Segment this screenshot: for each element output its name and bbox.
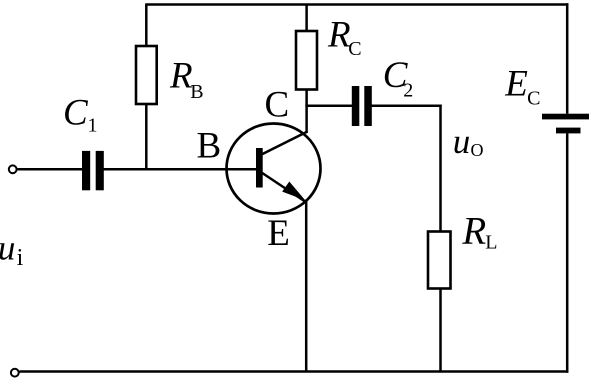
svg-text:C: C: [348, 38, 361, 60]
transistor emitter arrowhead: [282, 182, 305, 201]
wire bottom rail: [20, 370, 569, 373]
svg-text:E: E: [267, 213, 290, 254]
wire RB lower leg: [145, 104, 148, 170]
battery EC long plate: [542, 114, 589, 120]
capacitor C2 right plate: [364, 86, 372, 126]
svg-text:C: C: [265, 84, 290, 125]
resistor R_B: [136, 46, 157, 104]
svg-text:C: C: [527, 88, 540, 110]
transistor Q1 body: [227, 124, 321, 214]
svg-text:B: B: [190, 81, 203, 103]
wire input to C1: [18, 168, 84, 171]
wire RC upper leg: [305, 5, 308, 32]
output terminal: [11, 369, 19, 377]
wire RL lower leg: [439, 289, 442, 372]
resistor R_C: [296, 31, 317, 90]
transistor base bar: [256, 148, 263, 188]
svg-text:L: L: [485, 232, 497, 254]
capacitor C2 left plate: [352, 86, 360, 126]
svg-text:E: E: [504, 63, 528, 104]
wire right rail lower: [566, 133, 569, 372]
svg-text:u: u: [453, 122, 471, 161]
wire C2 to output node: [371, 105, 442, 108]
wire top rail: [145, 3, 568, 6]
input terminal: [9, 165, 17, 173]
svg-text:B: B: [197, 126, 222, 167]
wire right rail upper: [566, 3, 569, 113]
wire C2 node to plate: [305, 105, 352, 108]
svg-text:R: R: [327, 15, 351, 56]
transistor emitter line: [262, 173, 307, 203]
transistor collector line: [262, 132, 308, 155]
wire C1 to base: [103, 168, 257, 171]
svg-text:R: R: [461, 210, 486, 253]
capacitor C1 right plate: [96, 151, 104, 190]
svg-text:O: O: [471, 140, 484, 160]
wire RB upper leg: [145, 5, 148, 47]
capacitor C1 left plate: [82, 151, 90, 190]
svg-text:2: 2: [403, 80, 413, 102]
svg-text:1: 1: [88, 115, 98, 137]
svg-text:C: C: [63, 93, 89, 134]
svg-text:R: R: [169, 56, 193, 97]
wire output leg upper: [439, 105, 442, 232]
resistor R_L: [428, 232, 451, 289]
svg-text:i: i: [17, 245, 24, 271]
svg-text:u: u: [0, 229, 15, 268]
wire collector leg: [305, 90, 308, 133]
wire emitter leg: [305, 200, 308, 372]
battery EC short plate: [556, 128, 581, 134]
